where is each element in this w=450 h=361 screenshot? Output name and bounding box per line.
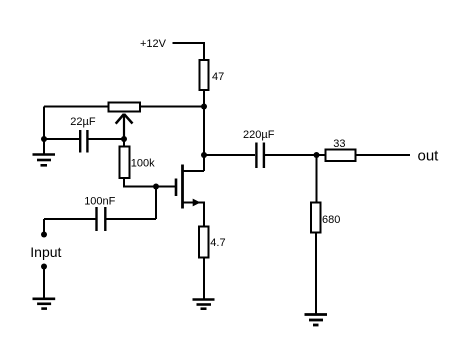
transistor Q1 source arrow (193, 199, 201, 207)
svg-text:220µF: 220µF (243, 129, 275, 141)
wire +12V supply to top of R1 (173, 43, 205, 60)
wire drain rail R1 bottom to drain bend (203, 91, 205, 171)
svg-text:680: 680 (322, 214, 340, 226)
wire C3 right lead to output node (265, 154, 317, 156)
svg-text:33: 33 (333, 138, 345, 150)
wire wiper node to R2 top (123, 139, 125, 146)
wire 100nF right lead (106, 218, 156, 220)
node junction wiper/22uF/100k (121, 136, 127, 142)
wire R5 bottom to ground (315, 234, 317, 315)
potentiometer wiper arrow (116, 114, 133, 139)
transistor Q1 channel bar (181, 165, 184, 209)
svg-text:22µF: 22µF (70, 116, 96, 128)
wire 22uF right lead to wiper node (89, 138, 125, 140)
wire output node to R4 left (317, 154, 326, 156)
capacitor C1 22uF plates (80, 130, 87, 153)
capacitor C3 220uF plates (256, 143, 264, 169)
ground G2 symbol (193, 300, 215, 309)
resistor R3 4.7 (199, 227, 209, 258)
wire R2 bottom to gate row (124, 179, 175, 187)
resistor R2 100k (120, 147, 130, 179)
wire source bend down to R3 (203, 203, 205, 227)
ground G1 symbol (33, 155, 56, 166)
wire 100nF left lead (44, 218, 96, 220)
wire R4 right to out (357, 154, 411, 156)
potentiometer VR1 body (109, 103, 141, 112)
wire output node down to R5 (316, 155, 318, 202)
node junction output (314, 152, 320, 158)
ground G3 symbol (33, 299, 56, 309)
svg-text:100nF: 100nF (84, 196, 115, 208)
input terminal dot (41, 232, 47, 238)
resistor R1 47 (200, 60, 209, 90)
wire gate node drop (155, 187, 157, 220)
svg-text:100k: 100k (131, 158, 155, 170)
wire left drop down to 22uF node (43, 107, 45, 140)
ground G1 stem (43, 139, 45, 154)
wire drain node to C3 left lead (204, 154, 255, 156)
wire pot left terminal to left drop (44, 106, 108, 108)
wire R3 bottom to ground (203, 259, 205, 299)
svg-text:+12V: +12V (140, 38, 167, 50)
transistor Q1 gate bar (175, 179, 178, 197)
svg-text:out: out (418, 148, 440, 165)
svg-text:47: 47 (212, 71, 224, 83)
svg-text:4.7: 4.7 (210, 237, 225, 249)
node junction 22uF/ground (41, 136, 47, 142)
node junction drain/output cap (201, 152, 207, 158)
input ground terminal dot (41, 264, 47, 270)
node junction rail/pot (201, 104, 207, 110)
node junction gate/100nF (153, 184, 159, 190)
svg-text:Input: Input (30, 244, 61, 260)
resistor R4 33 (326, 150, 356, 162)
wire 22uF left lead (44, 138, 79, 140)
transistor Q1 drain lead (182, 170, 204, 172)
resistor R5 680 (311, 203, 321, 233)
capacitor C2 100nF plates (97, 207, 106, 231)
wire pot right terminal to rail (140, 106, 204, 108)
ground G4 symbol (305, 315, 328, 326)
wire input ground drop (43, 267, 45, 299)
transistor Q1 source lead (182, 202, 205, 204)
wire input drop (43, 219, 45, 235)
